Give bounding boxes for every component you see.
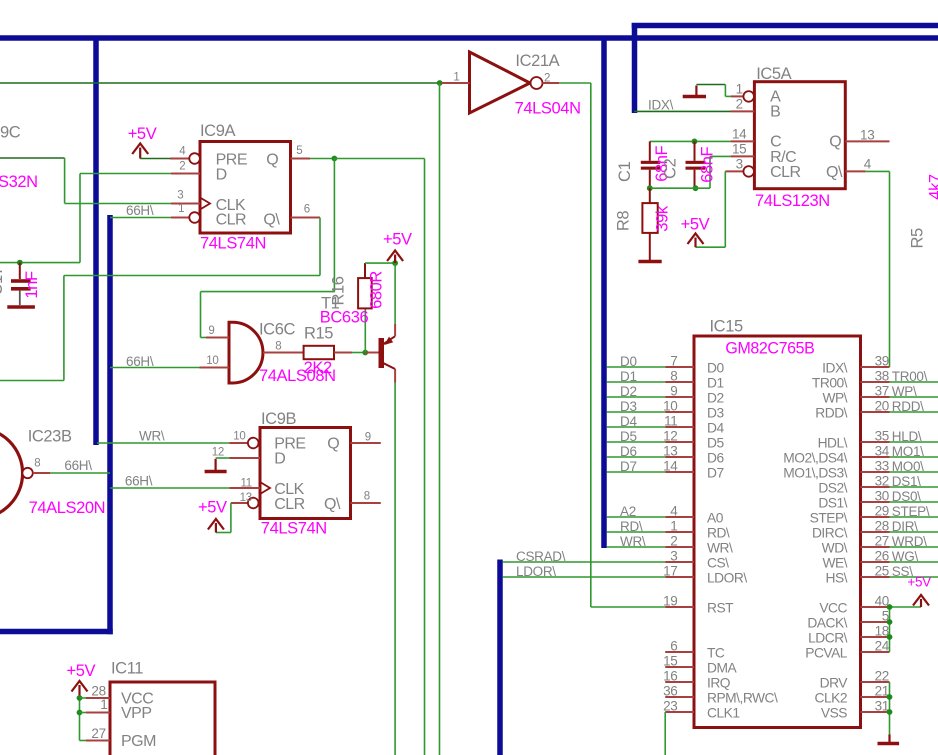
- svg-text:TC: TC: [707, 646, 725, 661]
- wire - CSRAD\ from lower bus: [503, 561, 666, 563]
- power +5V at IC9B CLR: [208, 519, 224, 530]
- IC11 pin 1 VPP stub: [86, 712, 110, 714]
- IC15 pin 14 D7 stub: [665, 471, 694, 473]
- IC15 pin 19 RST stub: [665, 606, 694, 608]
- svg-text:RPM\,RWC\: RPM\,RWC\: [707, 691, 778, 706]
- R16 top lead: [364, 263, 366, 278]
- svg-text:WG\: WG\: [892, 549, 919, 564]
- bus - top horizontal bus 1: [0, 35, 938, 41]
- wire - D0 from data bus: [607, 366, 666, 368]
- power +5V at IC11: [72, 681, 88, 692]
- wire - into IC6C pin 9: [201, 337, 207, 339]
- IC15 pin 12 D5 stub: [665, 441, 694, 443]
- svg-text:Q: Q: [829, 134, 841, 151]
- wire - IDX net from bus to IC5A pin 2 B: [634, 110, 731, 112]
- wire - R16 top to +5V junction: [365, 262, 395, 264]
- IC5A pin 14 C stub: [731, 140, 755, 142]
- wire - net MO1\ to right edge: [890, 456, 938, 458]
- IC15 pin 37 WP\ stub: [861, 396, 890, 398]
- svg-text:WR\: WR\: [707, 541, 733, 556]
- IC23B output bubble: [22, 468, 32, 478]
- svg-text:8: 8: [34, 458, 40, 470]
- wire - Q net branch down to IC6C: [333, 159, 335, 292]
- ground - below IC15 VSS: [888, 735, 890, 744]
- svg-text:WP\: WP\: [892, 384, 917, 399]
- wire - net DS1\ to right edge: [890, 486, 938, 488]
- svg-text:23: 23: [663, 699, 677, 714]
- svg-text:R5: R5: [909, 228, 927, 249]
- svg-text:IDX\: IDX\: [822, 361, 847, 376]
- AND gate IC6C 74ALS08N body: [229, 322, 263, 383]
- svg-text:2: 2: [544, 72, 550, 84]
- svg-text:+5V: +5V: [681, 215, 710, 233]
- IC15 pin 21 CLK2 stub: [861, 696, 890, 698]
- wire - RST horizontal into IC15 pin 19: [591, 606, 665, 608]
- svg-text:STEP\: STEP\: [810, 511, 848, 526]
- svg-text:68nF: 68nF: [698, 146, 716, 182]
- IC21A output pin 2 stub: [543, 82, 560, 84]
- IC15 pin 27 WD\ stub: [861, 546, 890, 548]
- node - junctions on VSS tie: [887, 694, 893, 700]
- bus - vertical bus tap to IDX net: [632, 23, 638, 113]
- svg-text:WR\: WR\: [620, 534, 646, 549]
- node - junction at IC21A input: [437, 80, 443, 86]
- svg-text:R8: R8: [615, 211, 633, 232]
- svg-text:IC6C: IC6C: [259, 320, 295, 338]
- ground - below C17: [7, 305, 35, 308]
- svg-text:66H\: 66H\: [126, 354, 154, 369]
- IC15 pin 36 RPM\,RWC\ stub: [665, 696, 694, 698]
- IC15 pin 28 DIRC\ stub: [861, 531, 890, 533]
- svg-text:12: 12: [663, 429, 677, 444]
- bus - bottom-left horizontal segment of bus B: [0, 629, 113, 635]
- svg-text:DRV: DRV: [820, 676, 849, 691]
- svg-text:C2: C2: [662, 158, 680, 179]
- svg-text:33: 33: [875, 459, 889, 474]
- svg-text:14: 14: [663, 459, 678, 474]
- IC15 pin 31 VSS stub: [861, 711, 890, 713]
- IC15 pin 5 DACK\ stub: [861, 621, 890, 623]
- resistor R8 top lead: [649, 188, 651, 203]
- svg-text:VCC: VCC: [819, 601, 847, 616]
- IC9A pin 5 Q stub: [291, 158, 311, 160]
- svg-text:37: 37: [875, 384, 889, 399]
- wire - R15 to transistor base: [334, 352, 352, 354]
- IC9B CLK triangle: [260, 482, 270, 494]
- wire - Q\ net to IC15 IDX pin 39: [866, 170, 890, 172]
- wire - D3 from data bus: [607, 411, 666, 413]
- wire - to VPP pin 1: [80, 712, 87, 714]
- IC11 pin 28 VCC stub: [86, 697, 110, 699]
- resistor R16 body (680R): [358, 278, 372, 308]
- svg-text:RDD\: RDD\: [892, 399, 924, 414]
- svg-text:A2: A2: [620, 504, 636, 519]
- svg-text:D3: D3: [620, 399, 637, 414]
- IC15 pin 29 STEP\ stub: [861, 516, 890, 518]
- wire - 66H net from IC23B to bus B: [50, 472, 110, 474]
- IC6C pin 8 stub to R15: [263, 352, 304, 354]
- node - junctions on VCC tie: [887, 604, 893, 610]
- IC21A output bubble: [531, 77, 543, 89]
- svg-text:1nF: 1nF: [23, 271, 41, 299]
- svg-text:D7: D7: [620, 459, 637, 474]
- IC15 pin 2 WR\ stub: [665, 546, 694, 548]
- svg-text:LDOR\: LDOR\: [707, 571, 747, 586]
- IC9B pin 9 Q stub: [351, 442, 381, 444]
- node - junction on Q net: [332, 156, 338, 162]
- IC5A pin 1 A stub and bubble: [731, 95, 743, 97]
- IC23B pin 8 stub: [33, 472, 50, 474]
- wire - 66H net to IC9A CLR pin 1 (from bus B top): [110, 217, 171, 219]
- svg-text:Q\: Q\: [324, 496, 341, 513]
- wire - VCC pin 40 net to +5V: [890, 606, 922, 608]
- wire - IC21A output to the right: [559, 82, 591, 84]
- capacitor C17 (1nF) upper lead: [19, 263, 21, 279]
- bus - top-right horizontal bus 2: [632, 23, 938, 29]
- IC5A pin 13 Q stub: [845, 140, 889, 142]
- power +5V at IC5A CLR: [688, 234, 704, 245]
- capacitor C1 bottom lead: [649, 170, 651, 189]
- capacitor C1 plates (68nF): [641, 161, 661, 164]
- IC15 pin 9 D2 stub: [665, 396, 694, 398]
- svg-text:10: 10: [206, 355, 218, 367]
- bus - vertical bus A (WR / left): [93, 38, 99, 445]
- IC9B pin 8 Q\ stub: [351, 502, 381, 504]
- svg-text:8: 8: [364, 491, 370, 503]
- wire - C net from pin 14 left: [650, 140, 731, 142]
- svg-text:S32N: S32N: [0, 173, 38, 191]
- wire - net TR00\ to right edge: [890, 381, 938, 383]
- svg-text:D2: D2: [707, 391, 724, 406]
- svg-text:4: 4: [670, 504, 678, 519]
- svg-text:8: 8: [275, 340, 281, 352]
- wire - R/C net up and into pin 15: [709, 156, 711, 188]
- svg-text:4: 4: [864, 156, 872, 171]
- svg-text:D7: D7: [707, 466, 724, 481]
- wire - VCC/DACK/LDCR/PCVAL vertical tie: [889, 607, 891, 652]
- IC15 pin 32 DS2\ stub: [861, 486, 890, 488]
- svg-text:3: 3: [736, 156, 743, 171]
- IC15 pin 33 MO1\,DS3\ stub: [861, 471, 890, 473]
- svg-text:PCVAL: PCVAL: [805, 646, 848, 661]
- svg-text:D6: D6: [707, 451, 724, 466]
- wire - IC19C output to IC9A CLK (horizontal from left edge): [0, 157, 65, 159]
- wire - CLR to +5V: [230, 503, 232, 533]
- IC5A pin 3 CLR stub and bubble: [725, 170, 743, 172]
- IC15 pin 6 TC stub: [665, 651, 694, 653]
- svg-text:+5V: +5V: [198, 498, 227, 516]
- svg-text:WR\: WR\: [139, 429, 165, 444]
- wire - +5V to IC9A PRE pin 4: [140, 158, 170, 160]
- ground - below R8: [638, 260, 661, 263]
- svg-text:CLR: CLR: [274, 496, 305, 513]
- svg-text:680R: 680R: [368, 271, 386, 309]
- wire - vertical drop from IC21A input junction: [439, 83, 441, 755]
- svg-text:9: 9: [670, 384, 677, 399]
- IC6C pin 9 stub: [206, 337, 229, 339]
- svg-text:74LS123N: 74LS123N: [755, 192, 830, 210]
- IC9A pin 4 PRE bubble: [189, 153, 200, 164]
- svg-text:2: 2: [179, 161, 185, 173]
- wire - ground up and over to pin 1: [696, 84, 725, 86]
- svg-text:27: 27: [91, 726, 105, 741]
- svg-text:B: B: [770, 104, 780, 121]
- IC9B pin 10 PRE stub and bubble: [230, 442, 248, 444]
- svg-text:20: 20: [875, 399, 889, 414]
- wire - RD\ from data bus: [607, 531, 666, 533]
- svg-text:74LS04N: 74LS04N: [515, 99, 581, 117]
- IC15 pin 23 CLK1 stub: [665, 711, 694, 713]
- svg-text:74ALS20N: 74ALS20N: [29, 499, 106, 517]
- svg-text:9: 9: [208, 325, 214, 337]
- node - junction C2 bottom: [693, 185, 699, 191]
- wire - D5 from data bus: [607, 441, 666, 443]
- wire - IC5A CLR pin 3 to +5V: [724, 171, 726, 247]
- svg-text:D: D: [274, 451, 285, 468]
- svg-text:HS\: HS\: [826, 571, 848, 586]
- svg-text:8: 8: [670, 369, 677, 384]
- IC11 pin 27 PGM stub: [86, 740, 110, 742]
- IC15 pin 7 D0 stub: [665, 366, 694, 368]
- power +5V above transistor: [387, 251, 403, 262]
- svg-text:2: 2: [736, 97, 743, 112]
- svg-text:D3: D3: [707, 406, 724, 421]
- svg-text:7: 7: [670, 354, 677, 369]
- wire - A2 from data bus: [607, 516, 666, 518]
- svg-text:WP\: WP\: [822, 391, 847, 406]
- wire - CLK1 net down from pin 23: [664, 712, 666, 755]
- capacitor C17 bottom plate: [11, 287, 31, 291]
- svg-text:CSRAD\: CSRAD\: [516, 549, 566, 564]
- svg-text:1: 1: [100, 697, 107, 712]
- svg-text:+5V: +5V: [128, 125, 157, 143]
- svg-text:WD\: WD\: [822, 541, 848, 556]
- monostable IC5A 74LS123N box: [754, 82, 845, 189]
- wire - Q net long vertical down at x=424.5: [424, 159, 426, 755]
- wire - IC9A D pin 2 horizontal: [80, 173, 171, 175]
- wire - D6 from data bus: [607, 456, 666, 458]
- wire - IC9A Q net: pin5 to junction: [310, 158, 334, 160]
- svg-text:RDD\: RDD\: [815, 406, 847, 421]
- svg-text:36: 36: [663, 684, 677, 699]
- wire - branch horizontal left: [201, 291, 335, 293]
- svg-text:R15: R15: [304, 325, 333, 343]
- wire - DRV/CLK2/VSS vertical tie to ground: [889, 682, 891, 735]
- IC15 pin 18 LDCR\ stub: [861, 636, 890, 638]
- svg-text:3: 3: [177, 189, 183, 201]
- R8 bottom lead: [649, 233, 651, 260]
- wire - net STEP\ to right edge: [890, 516, 938, 518]
- bus - vertical data/address bus left of IC15: [601, 38, 607, 548]
- ground - at IC5A pin 1 A input: [683, 95, 706, 98]
- wire - horizontal into IC9A CLK pin 3: [65, 203, 171, 205]
- svg-text:2: 2: [670, 534, 677, 549]
- svg-text:DACK\: DACK\: [807, 616, 847, 631]
- wire - IC9A Q\ net vertical from pin 6: [319, 218, 321, 276]
- op-amp IC9A 74LS74N flip-flop box: [200, 142, 291, 234]
- wire - D2 from data bus: [607, 396, 666, 398]
- IC15 pin 39 IDX\ stub: [861, 366, 890, 368]
- svg-text:12: 12: [212, 446, 224, 458]
- IC15 pin 24 PCVAL stub: [861, 651, 890, 653]
- svg-text:BC636: BC636: [320, 308, 369, 326]
- svg-text:11: 11: [664, 414, 677, 429]
- svg-text:13: 13: [663, 444, 677, 459]
- svg-text:Q\: Q\: [263, 212, 280, 229]
- svg-text:30: 30: [875, 489, 889, 504]
- svg-text:HLD\: HLD\: [892, 429, 922, 444]
- wire - net MO0\ to right edge: [890, 471, 938, 473]
- wire - to PGM pin 27: [80, 740, 87, 742]
- svg-text:+5V: +5V: [383, 230, 412, 248]
- IC15 pin 26 WE\ stub: [861, 561, 890, 563]
- svg-text:DS1\: DS1\: [892, 474, 921, 489]
- capacitor C2 top lead: [694, 141, 696, 160]
- svg-text:1: 1: [453, 72, 459, 84]
- svg-text:29: 29: [875, 504, 889, 519]
- svg-text:D5: D5: [707, 436, 724, 451]
- svg-text:26: 26: [875, 549, 889, 564]
- svg-text:66H\: 66H\: [125, 474, 153, 489]
- wire - R/C net horizontal: [650, 187, 710, 189]
- svg-text:TR00\: TR00\: [812, 376, 848, 391]
- wire - LDOR\ from lower bus: [503, 576, 666, 578]
- svg-text:HDL\: HDL\: [818, 436, 848, 451]
- svg-text:IC21A: IC21A: [515, 52, 559, 70]
- IC9A pin 3 CLK stub: [171, 203, 200, 205]
- svg-text:14: 14: [732, 127, 747, 142]
- svg-text:24: 24: [875, 639, 890, 654]
- wire - D7 from data bus: [607, 471, 666, 473]
- wire - branch vertical down: [200, 292, 202, 338]
- svg-text:DIRC\: DIRC\: [812, 526, 848, 541]
- node - junction at VPP: [77, 710, 83, 716]
- power +5V at IC15 VCC: [913, 595, 929, 606]
- wire - net WG\ to right edge: [890, 561, 938, 563]
- wire - net SS\ to right edge: [890, 576, 938, 578]
- wire - Q\ net vertical at x=63.9: [63, 276, 65, 381]
- svg-text:39: 39: [875, 354, 889, 369]
- IC9A pin 2 D stub: [171, 173, 200, 175]
- svg-text:VPP: VPP: [121, 705, 152, 722]
- svg-text:IC15: IC15: [710, 318, 743, 336]
- svg-text:2K2: 2K2: [304, 359, 332, 377]
- ground - at IC9B pin 12: [215, 459, 217, 472]
- IC15 pin 30 DS1\ stub: [861, 501, 890, 503]
- svg-text:IC23B: IC23B: [28, 428, 72, 446]
- svg-text:3: 3: [670, 549, 677, 564]
- svg-text:+5V: +5V: [907, 574, 931, 589]
- svg-text:RD\: RD\: [620, 519, 643, 534]
- wire - 66H net from bus B to IC6C pin 10: [110, 367, 200, 369]
- svg-text:CLK1: CLK1: [707, 706, 740, 721]
- wire - Q\ net horizontal: [64, 275, 320, 277]
- IC15 pin 34 MO2\,DS4\ stub: [861, 456, 890, 458]
- svg-text:D0: D0: [707, 361, 724, 376]
- svg-text:MO1\,DS3\: MO1\,DS3\: [783, 466, 847, 481]
- svg-text:+5V: +5V: [67, 662, 96, 680]
- wire - net DIR\ to right edge: [890, 531, 938, 533]
- svg-text:VSS: VSS: [821, 706, 847, 721]
- IC15 pin 16 IRQ stub: [665, 681, 694, 683]
- wire - 66H net from bus B to IC9B CLK pin 11: [110, 487, 230, 489]
- svg-text:D1: D1: [620, 369, 637, 384]
- svg-text:Q: Q: [266, 152, 278, 169]
- transistor T1 BC636 base bar: [379, 338, 385, 368]
- wire - Q\ net to left edge: [0, 380, 64, 382]
- wire - Q net continues right: [334, 158, 424, 160]
- svg-text:GM82C765B: GM82C765B: [725, 339, 814, 357]
- IC15 pin 38 TR00\ stub: [861, 381, 890, 383]
- svg-text:WRD\: WRD\: [892, 534, 927, 549]
- IC15 pin 11 D4 stub: [665, 426, 694, 428]
- IC15 pin 4 A0 stub: [665, 516, 694, 518]
- svg-text:D2: D2: [620, 384, 637, 399]
- svg-text:TR00\: TR00\: [892, 369, 928, 384]
- svg-text:C17: C17: [0, 266, 6, 295]
- svg-text:D: D: [216, 167, 227, 184]
- svg-text:27: 27: [875, 534, 889, 549]
- svg-text:4: 4: [179, 145, 186, 157]
- wire - net DS0\ to right edge: [890, 501, 938, 503]
- svg-text:DS2\: DS2\: [818, 481, 847, 496]
- IC15 pin 22 DRV stub: [861, 681, 890, 683]
- svg-text:16: 16: [663, 669, 677, 684]
- svg-text:17: 17: [663, 564, 677, 579]
- IC9B pin 13 CLR stub and bubble: [231, 502, 248, 504]
- svg-text:1: 1: [736, 82, 743, 97]
- bus - vertical bus B (66H nets): [107, 215, 113, 634]
- IC5A pin 2 B stub: [731, 110, 754, 112]
- wire - WR\ from data bus: [607, 546, 666, 548]
- IC15 pin 20 RDD\ stub: [861, 411, 890, 413]
- svg-text:74LS74N: 74LS74N: [200, 235, 266, 253]
- svg-text:RD\: RD\: [707, 526, 730, 541]
- svg-text:DMA: DMA: [707, 661, 737, 676]
- svg-text:MO1\: MO1\: [892, 444, 924, 459]
- svg-text:11: 11: [240, 478, 251, 490]
- svg-text:MO0\: MO0\: [892, 459, 924, 474]
- svg-text:10: 10: [233, 431, 245, 443]
- svg-text:38: 38: [875, 369, 889, 384]
- IC15 pin 35 HDL\ stub: [861, 441, 890, 443]
- svg-text:CLR: CLR: [216, 212, 247, 229]
- capacitor C2 plates (68nF): [686, 161, 706, 164]
- inverter IC21A 74LS04N triangle: [470, 52, 531, 113]
- node - junction base/R16: [362, 350, 368, 356]
- IC15 pin 3 CS\ stub: [665, 561, 694, 563]
- svg-text:1: 1: [178, 203, 184, 215]
- resistor R8 body (39k): [642, 203, 657, 233]
- IC21A input pin 1 stub: [442, 82, 470, 84]
- svg-text:IRQ: IRQ: [707, 676, 731, 691]
- IC15 pin 17 LDOR\ stub: [665, 576, 694, 578]
- svg-text:25: 25: [875, 564, 889, 579]
- svg-text:CS\: CS\: [707, 556, 729, 571]
- IC IC11 box (partial at bottom edge): [110, 682, 215, 755]
- svg-text:C1: C1: [616, 161, 634, 182]
- IC15 pin 13 D6 stub: [665, 456, 694, 458]
- IC9A pin 6 Q\ stub: [291, 217, 321, 219]
- svg-text:13: 13: [860, 128, 874, 143]
- IC6C pin 10 stub: [200, 367, 230, 369]
- svg-text:MO2\,DS4\: MO2\,DS4\: [783, 451, 847, 466]
- capacitor C1 top lead: [649, 141, 651, 160]
- IC9A CLK triangle: [200, 198, 210, 210]
- wire - +5V down to transistor emitter: [394, 263, 396, 324]
- T1 emitter lead with arrow (PNP): [384, 336, 395, 344]
- svg-text:CLK2: CLK2: [814, 691, 847, 706]
